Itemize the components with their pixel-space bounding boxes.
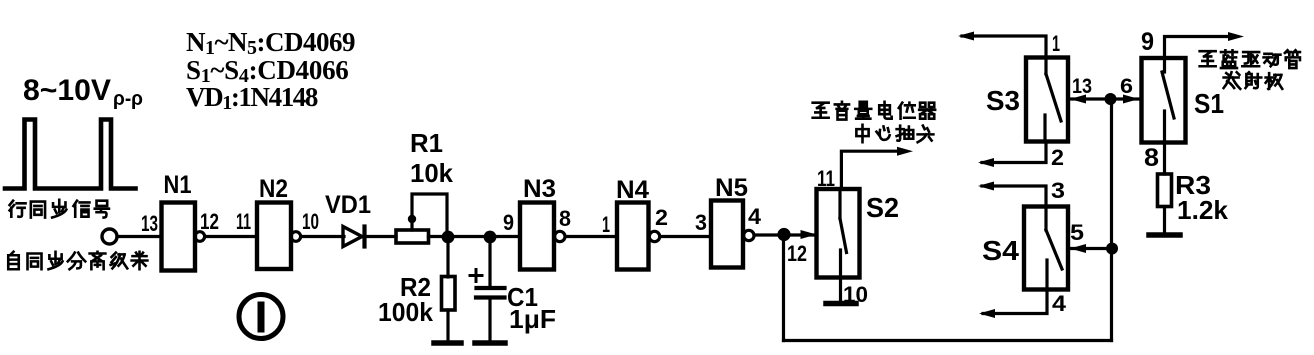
svg-text:13: 13 — [1072, 75, 1092, 98]
svg-text:1.2k: 1.2k — [1177, 195, 1229, 225]
wire N3 to N4 — [566, 235, 618, 238]
arrow to volume pot — [897, 147, 913, 156]
svg-text:S2: S2 — [866, 192, 899, 223]
wire N2 to VD1 — [301, 235, 344, 238]
svg-text:N2: N2 — [259, 175, 288, 203]
N3 output bubble — [555, 231, 565, 241]
node B junction — [484, 231, 497, 244]
arrow into S3 pin 13 — [1070, 95, 1086, 104]
R1 wiper loop wire — [412, 194, 447, 231]
wire R2 to ground — [446, 310, 449, 341]
arrow out of S3 pin 1 — [958, 32, 974, 41]
analog switch S3 — [1026, 58, 1068, 142]
svg-text:10: 10 — [302, 209, 319, 234]
S2 pin 11 wire to volume pot — [841, 151, 905, 189]
arrow into S2 pin 12 — [801, 230, 817, 239]
input terminal node — [102, 229, 117, 244]
S2 pin 10 wire — [839, 278, 842, 302]
resistor R1 (rheostat) body — [396, 230, 429, 243]
svg-text:ρ-ρ: ρ-ρ — [113, 88, 143, 110]
svg-text:R1: R1 — [410, 128, 443, 158]
S2 switch contact — [838, 189, 841, 219]
S3 pin 2 wire — [982, 142, 1046, 163]
S4 pin 5 wire — [1068, 247, 1112, 250]
svg-text:N3: N3 — [523, 175, 556, 203]
R1 wiper arm — [410, 221, 413, 230]
svg-text:10k: 10k — [410, 158, 454, 188]
svg-text:5: 5 — [1070, 220, 1084, 245]
label 发射极 (emitter) — [1224, 72, 1241, 89]
svg-text:13: 13 — [141, 211, 158, 236]
wire VD1 to R1 — [365, 235, 397, 238]
analog switch S2 — [817, 189, 860, 278]
wire N4 to N5 — [660, 235, 711, 238]
svg-text:4: 4 — [748, 204, 762, 229]
wire N5 to S2 pin 12 — [755, 233, 817, 236]
wire input to N1 — [117, 235, 162, 238]
N4 output bubble — [649, 231, 659, 241]
arrow to blue driver emitter — [1228, 32, 1244, 41]
resistor R2 body — [442, 277, 456, 311]
svg-text:1: 1 — [1052, 31, 1060, 56]
svg-text:6: 6 — [1120, 75, 1133, 98]
feedback wire bottom run — [784, 339, 1112, 342]
label 行同步信号 (horizontal sync signal) — [10, 201, 26, 217]
svg-text:11: 11 — [817, 166, 835, 191]
S1 pin 8 wire — [1163, 143, 1166, 175]
node C junction (pin 12 feedback tap) — [777, 228, 790, 241]
arrow out of S4 pin 4 — [979, 309, 995, 318]
label 至蓝驱动管 (to blue drive transistor) — [1200, 51, 1216, 66]
svg-text:8~10V: 8~10V — [23, 74, 111, 107]
arrow into S1 pin 6 — [1123, 95, 1139, 104]
inverter N2 — [257, 203, 291, 270]
capacitor C1 plates — [477, 286, 505, 290]
svg-text:S3: S3 — [986, 85, 1020, 116]
svg-text:12: 12 — [200, 209, 219, 234]
C1 polarity + — [470, 274, 482, 277]
svg-text:N4: N4 — [616, 176, 649, 204]
svg-text:VD1:1N4148: VD1:1N4148 — [186, 82, 318, 114]
analog switch S1 — [1142, 58, 1186, 143]
resistor R3 body — [1158, 174, 1172, 207]
inverter N1 — [162, 203, 196, 271]
input pulse waveform (8-10Vp-p sync pulses) — [5, 120, 136, 189]
ground under S2 — [826, 301, 856, 307]
S1 pin 9 wire to blue driver — [1165, 37, 1237, 59]
figure number circle 1 — [239, 295, 283, 339]
wire node B to C1 — [488, 242, 491, 288]
S3 pin 1 wire — [962, 36, 1046, 58]
S4 pin 3 wire — [982, 186, 1046, 207]
ground under C1 — [475, 340, 505, 346]
label 至音量电位器 (to volume potentiometer) — [813, 103, 829, 118]
svg-text:1μF: 1μF — [509, 304, 556, 334]
svg-text:8: 8 — [559, 206, 571, 231]
S4 switch contact — [1044, 207, 1047, 231]
S1 switch contact — [1163, 58, 1166, 72]
label 自同步分离级来 (from sync separator stage) — [8, 252, 19, 270]
wire N1 to N2 — [205, 235, 257, 238]
svg-text:2: 2 — [1051, 145, 1064, 170]
analog switch S4 — [1024, 207, 1068, 290]
ground under R2 — [434, 340, 461, 346]
arrow out of S3 pin 2 — [978, 158, 994, 167]
feedback wire down from node C — [782, 235, 785, 341]
N2 output bubble — [291, 232, 301, 242]
svg-text:3: 3 — [695, 210, 707, 235]
svg-text:11: 11 — [236, 209, 251, 234]
svg-text:VD1: VD1 — [325, 191, 371, 219]
svg-text:100k: 100k — [378, 297, 434, 327]
inverter N4 — [617, 203, 649, 270]
svg-text:4: 4 — [1052, 291, 1067, 316]
ground under R3 — [1149, 232, 1180, 238]
diode VD1 — [343, 227, 362, 247]
S3 pin 13 wire — [1068, 97, 1112, 100]
control bus vertical wire — [1110, 99, 1113, 341]
svg-text:9: 9 — [503, 210, 514, 235]
N5 output bubble — [744, 230, 754, 240]
svg-text:S1: S1 — [1194, 88, 1224, 119]
svg-text:3: 3 — [1051, 178, 1065, 203]
svg-text:1: 1 — [602, 212, 610, 237]
wire R1 to node A — [429, 235, 449, 238]
wire node B to N3 — [490, 235, 520, 238]
node E junction (S4 control) — [1106, 243, 1118, 255]
label 中心抽头 (center tap) — [856, 125, 868, 143]
svg-text:9: 9 — [1141, 28, 1154, 56]
node A junction — [442, 231, 455, 244]
wire R3 to ground — [1163, 207, 1166, 234]
arrow into S4 pin 5 — [1070, 244, 1086, 253]
svg-text:12: 12 — [787, 241, 807, 266]
S4 pin 4 wire — [983, 290, 1047, 314]
svg-text:8: 8 — [1144, 144, 1159, 172]
svg-text:N5: N5 — [715, 174, 748, 202]
svg-text:S4: S4 — [982, 235, 1019, 266]
N1 output bubble — [195, 232, 205, 242]
svg-text:2: 2 — [655, 205, 668, 230]
wire C1 to ground — [488, 298, 491, 342]
wire node A to node B — [448, 235, 490, 238]
wire node A to R2 — [446, 242, 449, 277]
arrow out of S4 pin 3 — [978, 182, 994, 191]
inverter N5 — [711, 201, 743, 268]
node D junction (S3/S1 control) — [1105, 93, 1117, 105]
S3 switch contact — [1044, 58, 1047, 75]
S1 pin 6 wire — [1112, 97, 1142, 100]
svg-text:N1: N1 — [164, 171, 192, 199]
inverter N3 — [520, 203, 554, 270]
